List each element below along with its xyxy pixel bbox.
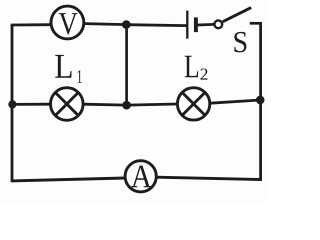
- node: middle junction dot: [122, 101, 131, 110]
- lamp L1: [51, 88, 84, 121]
- wire: top-left corner to voltmeter: [11, 23, 51, 26]
- switch S: pivot circle: [214, 20, 222, 28]
- lamp L2: [177, 88, 209, 120]
- wire: middle vertical branch: [125, 25, 128, 106]
- wire: left junction to lamp L1: [12, 103, 51, 106]
- node: right middle junction dot: [256, 96, 265, 105]
- voltmeter V: [51, 6, 84, 39]
- wire: lamp L1 to middle junction: [83, 103, 127, 107]
- battery cell: short negative plate: [194, 17, 198, 32]
- wire: voltmeter to top junction: [85, 24, 128, 25]
- label L1: [55, 55, 81, 83]
- wire: bottom-left corner to ammeter: [11, 178, 126, 181]
- wire: top junction to battery: [126, 23, 186, 27]
- node: top junction dot: [122, 20, 131, 29]
- wire: middle junction to lamp L2: [127, 104, 178, 105]
- wire: left vertical side: [11, 25, 14, 181]
- switch S: open blade: [223, 8, 252, 22]
- ammeter A: [125, 161, 156, 192]
- switch S: fixed contact stub: [250, 22, 262, 25]
- label L2: [185, 56, 208, 80]
- wire: battery to switch pivot: [198, 23, 215, 26]
- wire: ammeter to bottom-right corner: [157, 177, 262, 179]
- node: left middle junction dot: [8, 100, 16, 108]
- wire: right vertical side: [259, 22, 262, 180]
- wire: lamp L2 to right junction: [210, 100, 260, 103]
- battery cell: long positive plate: [186, 11, 188, 39]
